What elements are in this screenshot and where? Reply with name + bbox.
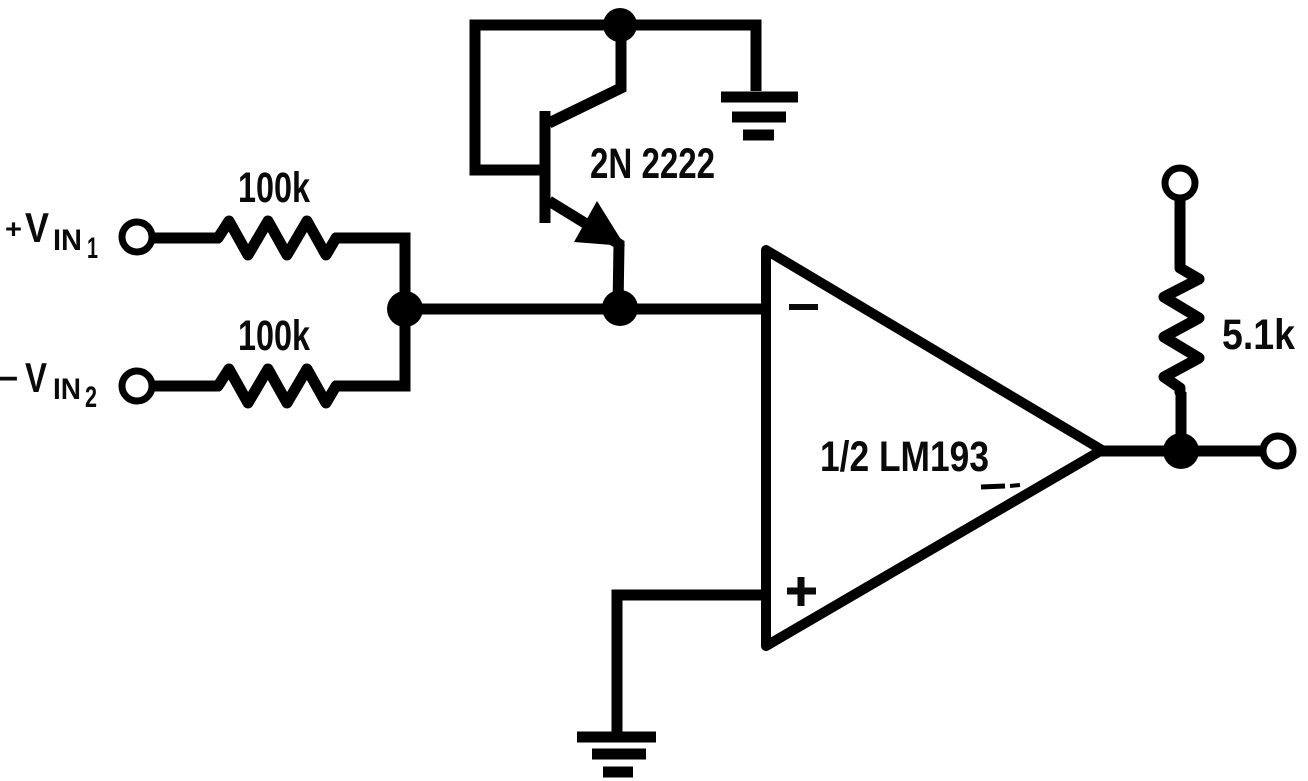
svg-text:2N 2222: 2N 2222 — [590, 140, 715, 188]
svg-text:2: 2 — [85, 381, 97, 414]
ground symbol (top right) — [721, 97, 798, 135]
output terminal circle — [1263, 436, 1293, 466]
transistor Q1 base bar — [540, 111, 551, 223]
wire input2 to resistor R2 — [137, 381, 220, 392]
junction dot top — [603, 8, 637, 42]
transistor Q1 emitter — [549, 201, 619, 308]
resistor R2 zigzag — [218, 369, 336, 403]
transistor Q1 emitter arrowhead — [574, 201, 625, 246]
wire resistor R3 to top terminal — [1175, 183, 1186, 266]
wire R1 to node A and down to R2 — [334, 238, 405, 386]
svg-text:V: V — [25, 354, 47, 401]
wire top to ground — [620, 25, 756, 91]
svg-text:–: – — [0, 356, 18, 398]
svg-text:100k: 100k — [238, 164, 310, 212]
wire base loop of Q1 — [475, 25, 622, 170]
svg-text:IN: IN — [53, 224, 82, 257]
wire input1 to resistor R1 — [137, 233, 220, 244]
op-amp U1 triangle — [766, 250, 1102, 646]
svg-text:100k: 100k — [238, 312, 310, 360]
svg-text:5.1k: 5.1k — [1222, 311, 1295, 359]
artifact dash below label — [981, 485, 1020, 487]
label +VIN1 — [5, 204, 98, 265]
svg-text:+: + — [5, 214, 22, 244]
op-amp plus sign — [787, 577, 816, 606]
output junction dot — [1163, 433, 1199, 469]
wire output node up to resistor R3 — [1176, 392, 1187, 451]
svg-text:1: 1 — [87, 232, 98, 265]
node A junction dot — [387, 291, 423, 327]
wire op-amp output — [1100, 446, 1278, 457]
transistor Q1 2N2222 collector — [549, 25, 621, 123]
ground symbol (bottom) — [577, 737, 656, 772]
resistor R3 5.1k zigzag — [1164, 264, 1199, 392]
op-amp minus sign — [789, 304, 818, 310]
resistor R1 zigzag — [218, 221, 336, 255]
input terminal circle -VIN2 — [122, 371, 152, 401]
junction dot emitter/main wire — [602, 290, 638, 326]
wire non-inverting input to ground — [617, 595, 763, 737]
label -VIN2 — [0, 354, 97, 414]
wire node A to op-amp inverting input — [405, 304, 766, 315]
top terminal circle — [1165, 168, 1195, 198]
svg-text:1/2 LM193: 1/2 LM193 — [820, 433, 989, 481]
input terminal circle +VIN1 — [122, 222, 152, 252]
svg-text:V: V — [25, 204, 49, 251]
svg-text:IN: IN — [53, 373, 81, 406]
